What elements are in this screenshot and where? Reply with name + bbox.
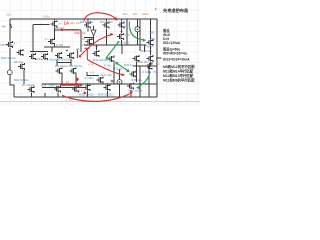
right notes text — [163, 7, 195, 83]
transistor M11 — [127, 83, 133, 90]
green annotations — [107, 22, 150, 87]
transistor M8 — [6, 41, 12, 48]
svg-text:V1u: V1u — [70, 56, 75, 60]
green arrowhead loop — [136, 86, 140, 89]
grid (decorative) — [0, 0, 200, 106]
red arc top — [84, 13, 116, 21]
wire left mirror — [23, 70, 25, 84]
green arrowhead double-left — [115, 62, 119, 66]
green mid arrow — [107, 41, 119, 57]
junction node5 — [121, 31, 123, 33]
transistor M8b — [17, 49, 23, 56]
svg-text:M7 20u/2u: M7 20u/2u — [100, 20, 114, 24]
svg-text:10u: 10u — [6, 13, 11, 17]
green arrowhead mid — [105, 56, 109, 60]
svg-text:M13 10u/2u: M13 10u/2u — [79, 93, 94, 97]
svg-text:M16 10u: M16 10u — [131, 78, 142, 82]
svg-text:M11 10u/2u: M11 10u/2u — [129, 88, 144, 92]
junction node2 — [66, 50, 68, 52]
green arrowhead double-right — [126, 69, 130, 73]
red swoosh — [62, 94, 130, 102]
svg-text:M11 1u: M11 1u — [124, 63, 134, 67]
wire stub M7 — [87, 19, 89, 32]
svg-text:M16 10u: M16 10u — [138, 60, 149, 64]
wire col x140 — [139, 19, 141, 97]
red arrowhead top arc — [114, 17, 118, 21]
svg-text:M5和M12的平行匹配: M5和M12的平行匹配 — [163, 64, 195, 69]
wire diff sources — [57, 59, 76, 84]
svg-text:10u: 10u — [133, 12, 138, 16]
red arrowhead low arc — [122, 73, 126, 76]
junction node8 — [119, 69, 121, 71]
red diag arrow — [81, 35, 112, 56]
junction node6 — [87, 83, 89, 85]
green right loop — [139, 72, 151, 87]
svg-text:VB1: VB1 — [150, 31, 156, 35]
transistor M18 — [146, 63, 152, 70]
junction output node — [156, 57, 158, 59]
transistor M2 — [41, 53, 47, 60]
junction node4 — [54, 29, 56, 31]
svg-text:100u: 100u — [142, 12, 149, 16]
wire diff top — [30, 47, 70, 52]
svg-text:W10u: W10u — [36, 57, 44, 61]
wire col x127 — [126, 19, 128, 45]
svg-text:M2 10u/2u: M2 10u/2u — [57, 58, 71, 62]
wire col x148 — [148, 66, 150, 97]
svg-text:M8 10u/2u: M8 10u/2u — [1, 43, 15, 47]
transistor Mc — [28, 86, 34, 93]
transistor M2b — [67, 52, 73, 59]
transistor M9 — [51, 20, 57, 27]
svg-text:M17 10u: M17 10u — [101, 73, 112, 77]
transistor M17 — [97, 77, 103, 84]
wire mid node — [84, 45, 147, 54]
svg-text:Mc 10u/2u: Mc 10u/2u — [22, 83, 36, 87]
transistor M10b — [86, 38, 92, 45]
transistor mid2 — [117, 33, 123, 40]
transistor M10 — [93, 50, 99, 57]
source squiggle — [10, 24, 11, 28]
svg-text:10/2: 10/2 — [125, 33, 131, 37]
red arrowhead swoosh — [129, 92, 133, 95]
wire stub top4 — [121, 19, 123, 45]
wire gate bias chain — [33, 25, 50, 52]
triangle symbol — [91, 30, 96, 36]
wire stub top3 — [106, 19, 108, 45]
wire bottom rail — [14, 96, 157, 98]
svg-text:0.7x8: 0.7x8 — [104, 63, 111, 67]
svg-text:0.7x8u: 0.7x8u — [85, 76, 94, 80]
svg-text:1A: 1A — [82, 31, 86, 35]
wire y37 — [84, 37, 94, 39]
red annotations — [60, 13, 130, 102]
current source I2 — [135, 27, 140, 32]
red bar2 and low arc — [85, 48, 124, 75]
svg-text:M13→M14 1u: M13→M14 1u — [41, 83, 59, 87]
svg-text:0.7: 0.7 — [90, 70, 95, 74]
gray size notes — [14, 22, 131, 46]
svg-text:Vo: Vo — [153, 70, 157, 74]
svg-text:M14和M10平行匹配: M14和M10平行匹配 — [163, 73, 194, 78]
current source I1 left — [7, 70, 12, 75]
wire col x137 — [137, 19, 139, 45]
svg-text:先考虑把布局: 先考虑把布局 — [163, 7, 188, 14]
svg-text:M6: M6 — [122, 25, 126, 29]
red dot node A — [79, 55, 81, 57]
svg-text:M14 10u/2u: M14 10u/2u — [98, 93, 113, 97]
red bar1 — [77, 50, 79, 59]
wire col x120 — [114, 63, 120, 97]
green double arrow — [117, 63, 128, 70]
svg-text:1M: 1M — [58, 22, 62, 26]
svg-text:4uA: 4uA — [74, 31, 81, 35]
svg-text:M5 20u/2u: M5 20u/2u — [80, 20, 94, 24]
svg-text:0.7x8: 0.7x8 — [81, 43, 88, 47]
svg-text:M15 10u: M15 10u — [141, 49, 152, 53]
red bottom arrow — [60, 84, 80, 86]
svg-text:ID13=ID14=30uA: ID13=ID14=30uA — [163, 57, 190, 61]
transistor M12 — [108, 56, 114, 63]
wire VDD top rail — [10, 18, 157, 20]
svg-text:Mb2 10u/2u: Mb2 10u/2u — [14, 78, 29, 82]
svg-text:10u: 10u — [80, 37, 85, 41]
transistor M4 — [70, 67, 76, 74]
red arrowhead diag arrow — [110, 33, 113, 36]
junction node3 — [96, 46, 98, 48]
small node circle — [111, 80, 113, 82]
cursor mark — [155, 7, 157, 10]
wire col x93.5 — [93, 26, 95, 45]
svg-text:M3 10u/1u: M3 10u/1u — [55, 64, 69, 68]
wire Vb net — [55, 29, 81, 31]
red texts — [64, 20, 86, 83]
transistor M1 — [29, 53, 35, 60]
red dot node C — [84, 92, 86, 94]
red left arrow — [62, 29, 79, 31]
svg-text:M11和M9的平行匹配: M11和M9的平行匹配 — [163, 78, 195, 83]
svg-text:0.7x8: 0.7x8 — [56, 43, 63, 47]
transistor M11c — [130, 71, 136, 78]
svg-text:0.7x8u: 0.7x8u — [144, 44, 153, 48]
wire out row — [133, 65, 157, 67]
svg-text:M1 10u/2u: M1 10u/2u — [44, 58, 58, 62]
transistor M14 — [104, 84, 110, 91]
transistor M16 — [147, 55, 153, 62]
red arrowhead bottom arrow — [80, 84, 83, 87]
svg-text:W5=W9=3D=4u: W5=W9=3D=4u — [163, 51, 187, 55]
red arrowhead left arrow — [59, 28, 63, 31]
svg-text:ISS=120uA: ISS=120uA — [163, 41, 181, 45]
wire right edge — [156, 19, 158, 97]
transistor Me — [72, 86, 78, 93]
svg-text:40u 10u: 40u 10u — [70, 21, 81, 25]
transistor M7 — [103, 22, 109, 29]
wire left vertical — [10, 19, 14, 97]
svg-text:1x: 1x — [66, 80, 70, 84]
svg-text:VB2: VB2 — [150, 37, 156, 41]
svg-text:Mb 10u: Mb 10u — [14, 60, 24, 64]
svg-text:100u: 100u — [43, 15, 50, 19]
transistor M6 — [118, 22, 124, 29]
wire bottom devices — [88, 84, 132, 97]
transistor Mb — [18, 63, 24, 70]
wire stub M5 — [52, 19, 55, 52]
transistor M3 — [56, 67, 62, 74]
transistor M16b — [133, 55, 139, 62]
red dot node B — [75, 78, 78, 81]
blue labels — [1, 20, 157, 96]
svg-text:M4 10u/1u: M4 10u/1u — [69, 64, 83, 68]
svg-text:M13和M14平行匹配: M13和M14平行匹配 — [163, 68, 194, 73]
junction dots — [32, 29, 158, 85]
junction node1 — [32, 51, 34, 53]
wire bottom mirror — [32, 88, 85, 98]
transistor M5 — [84, 22, 90, 29]
svg-text:0.6 1.2: 0.6 1.2 — [76, 89, 86, 93]
transistor M13 — [84, 84, 90, 91]
transistor M1b — [55, 52, 61, 59]
wire col x136 low — [136, 62, 138, 82]
page boundary line — [0, 101, 200, 103]
transistor M15 — [147, 39, 153, 46]
transistor M9b cascode — [48, 38, 54, 45]
orange labels — [6, 12, 160, 102]
svg-text:1A: 1A — [64, 20, 70, 25]
transistor Md — [54, 86, 60, 93]
wire stub M15 — [145, 19, 151, 66]
wire mid-low rail — [42, 83, 157, 85]
svg-text:44u: 44u — [2, 25, 7, 29]
current source I3 — [117, 80, 122, 85]
wire x81 — [80, 30, 82, 52]
wire output pin — [87, 58, 162, 76]
svg-text:10u: 10u — [123, 12, 128, 16]
green arrowhead arc1 — [143, 38, 147, 41]
green arc top right — [129, 22, 143, 40]
junction node7 — [107, 83, 109, 85]
